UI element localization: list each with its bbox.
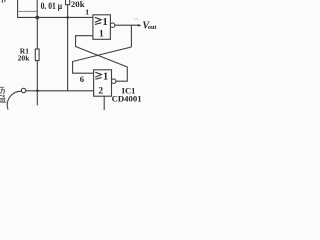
svg-text:20k: 20k [71, 0, 85, 9]
junction dot rail/R1 [36, 89, 39, 92]
svg-text:1: 1 [103, 17, 108, 28]
wire junction drop to cross arm [130, 25, 132, 47]
svg-text:0. 01 μ: 0. 01 μ [41, 1, 63, 12]
gate2 >=1 symbol [95, 72, 101, 79]
svg-text:20k: 20k [18, 54, 31, 63]
gate 1 output bubble [110, 23, 115, 28]
arrowhead to Vout [138, 24, 141, 27]
resistor R2 20k body (cut off at top) [66, 0, 70, 5]
svg-text:CD4001: CD4001 [112, 94, 142, 104]
junction dot R2/rail [66, 16, 69, 19]
op-amp U1A gate 1 box [93, 15, 111, 40]
wire R2 down to bottom rail [67, 5, 69, 91]
svg-text:6: 6 [80, 74, 85, 84]
wire gate1 output to Vout [115, 24, 139, 26]
盗 partial char [0, 95, 6, 102]
wire gate2 output up cross arm to gate1 lower input [76, 36, 128, 81]
gate 2 output bubble [111, 79, 116, 84]
scan smudge [134, 18, 139, 20]
svg-text:out: out [148, 24, 158, 31]
wire bottom rail to gate2 lower input [26, 90, 94, 92]
node A junction dot [35, 16, 39, 20]
gate 2 box [94, 70, 112, 96]
resistor R1 body [35, 49, 39, 61]
wire gate2 pin to bottom edge [103, 96, 105, 110]
防 partial char [0, 87, 4, 94]
capacitor plate remnant (faint) [18, 10, 38, 12]
top-left cut glyph [2, 0, 5, 3]
wire vertical into node A [36, 0, 38, 17]
svg-text:1: 1 [103, 72, 108, 83]
wire arc from 防盗 lead [7, 91, 21, 109]
wire node A through R1 down past rail [36, 17, 38, 105]
svg-text:1: 1 [85, 8, 89, 17]
gate1 >=1 symbol [95, 17, 101, 24]
wire node A to gate U1A input pin 1 [17, 16, 93, 18]
wire cross arm gate1-out to gate2-in [73, 47, 132, 73]
wire top-left vertical from cut-off top [17, 0, 19, 17]
svg-text:1: 1 [99, 29, 104, 39]
svg-text:2: 2 [98, 87, 103, 97]
terminal circle (sensor loop) [21, 88, 25, 92]
